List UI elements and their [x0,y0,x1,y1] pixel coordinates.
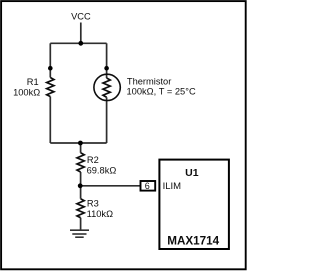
svg-text:R1: R1 [27,77,39,87]
svg-text:MAX1714: MAX1714 [167,235,219,248]
svg-text:100kΩ: 100kΩ [13,88,40,98]
svg-text:69.8kΩ: 69.8kΩ [87,165,117,175]
svg-text:VCC: VCC [71,12,91,22]
svg-text:Thermistor: Thermistor [127,76,171,86]
svg-text:110kΩ: 110kΩ [87,209,113,219]
svg-text:R3: R3 [87,198,99,208]
svg-text:ILIM: ILIM [163,181,182,192]
svg-text:100kΩ, T = 25°C: 100kΩ, T = 25°C [127,87,196,97]
svg-text:6: 6 [145,181,150,191]
svg-text:U1: U1 [185,167,199,179]
svg-text:R2: R2 [87,155,99,165]
